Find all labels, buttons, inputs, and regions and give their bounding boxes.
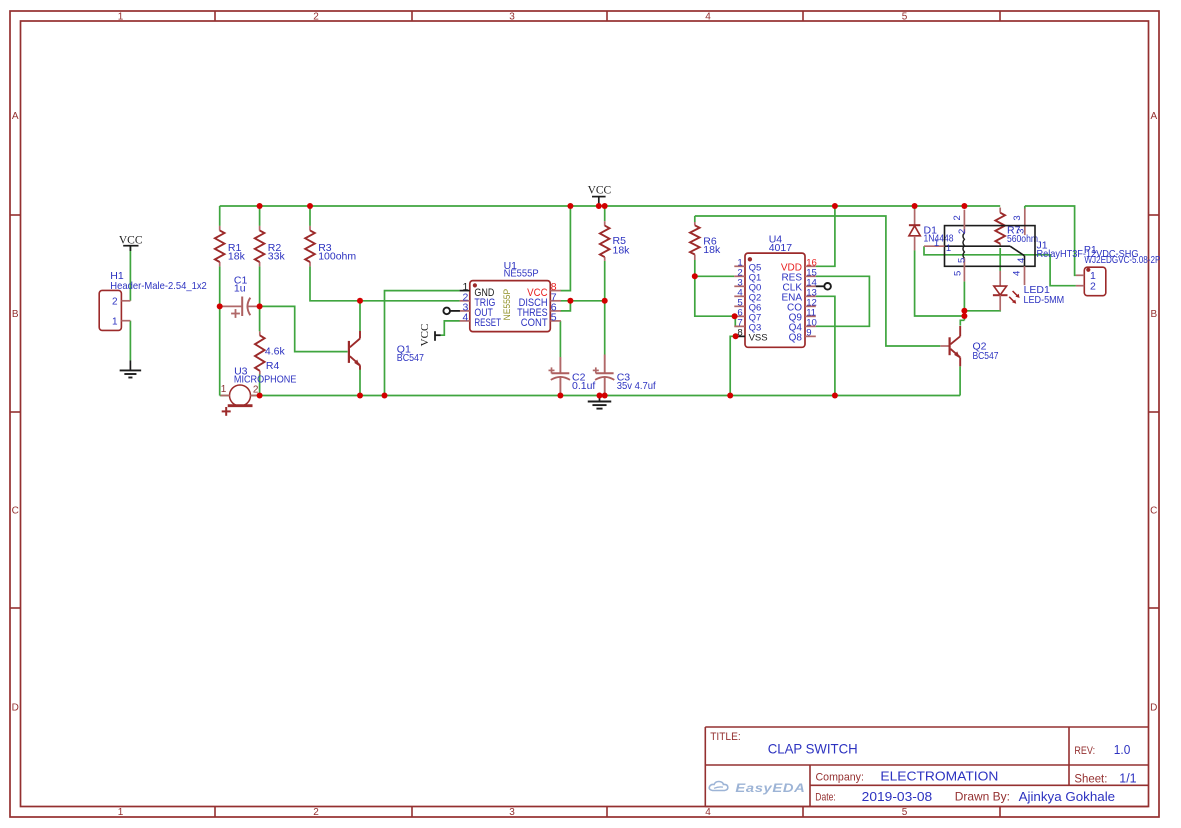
svg-text:Q8: Q8 bbox=[789, 333, 803, 344]
svg-text:5: 5 bbox=[956, 258, 967, 263]
svg-text:4: 4 bbox=[1011, 271, 1022, 276]
svg-text:3: 3 bbox=[509, 12, 515, 23]
svg-text:B: B bbox=[1150, 309, 1157, 320]
svg-text:C: C bbox=[12, 506, 19, 517]
svg-text:RESET: RESET bbox=[474, 317, 501, 329]
svg-text:18k: 18k bbox=[613, 245, 631, 257]
svg-text:Company:: Company: bbox=[816, 771, 864, 783]
svg-text:BC547: BC547 bbox=[397, 353, 424, 364]
svg-text:EasyEDA: EasyEDA bbox=[735, 783, 805, 795]
svg-text:A: A bbox=[1150, 111, 1157, 122]
svg-text:VCC: VCC bbox=[588, 185, 612, 197]
svg-text:Date:: Date: bbox=[815, 792, 836, 804]
svg-text:ELECTROMATION: ELECTROMATION bbox=[880, 769, 998, 784]
svg-text:4017: 4017 bbox=[769, 242, 793, 254]
svg-text:CLAP SWITCH: CLAP SWITCH bbox=[768, 740, 858, 756]
svg-text:A: A bbox=[12, 111, 19, 122]
svg-text:5: 5 bbox=[551, 312, 557, 324]
svg-text:1.0: 1.0 bbox=[1114, 743, 1131, 757]
svg-text:NE555P: NE555P bbox=[504, 268, 539, 280]
svg-text:BC547: BC547 bbox=[973, 351, 999, 362]
svg-text:WJ2EDGVC-5.08-2P: WJ2EDGVC-5.08-2P bbox=[1084, 255, 1160, 266]
svg-text:3: 3 bbox=[1016, 229, 1027, 234]
svg-text:33k: 33k bbox=[268, 251, 286, 263]
svg-text:3: 3 bbox=[509, 807, 515, 818]
svg-text:2: 2 bbox=[313, 12, 319, 23]
svg-text:B: B bbox=[12, 309, 19, 320]
svg-text:2: 2 bbox=[112, 296, 118, 307]
svg-text:1: 1 bbox=[118, 807, 124, 818]
svg-text:0.1uf: 0.1uf bbox=[572, 380, 595, 392]
svg-text:18k: 18k bbox=[228, 251, 246, 263]
svg-text:1/1: 1/1 bbox=[1119, 771, 1136, 786]
svg-text:Drawn By:: Drawn By: bbox=[955, 790, 1010, 804]
svg-text:1u: 1u bbox=[234, 283, 246, 295]
svg-text:1: 1 bbox=[112, 316, 118, 327]
svg-text:35v 4.7uf: 35v 4.7uf bbox=[617, 381, 656, 392]
svg-text:TITLE:: TITLE: bbox=[710, 731, 741, 743]
svg-text:3: 3 bbox=[1012, 215, 1023, 220]
svg-text:2: 2 bbox=[957, 229, 968, 234]
svg-text:NE555P: NE555P bbox=[502, 289, 513, 321]
svg-text:4: 4 bbox=[705, 807, 711, 818]
svg-text:4: 4 bbox=[1016, 258, 1027, 263]
svg-text:9: 9 bbox=[806, 328, 811, 339]
svg-text:Ajinkya Gokhale: Ajinkya Gokhale bbox=[1019, 790, 1116, 804]
svg-text:Sheet:: Sheet: bbox=[1074, 774, 1107, 786]
svg-text:5: 5 bbox=[902, 807, 908, 818]
svg-text:Header-Male-2.54_1x2: Header-Male-2.54_1x2 bbox=[110, 281, 207, 292]
svg-text:R4: R4 bbox=[266, 360, 280, 372]
svg-text:LED-5MM: LED-5MM bbox=[1024, 295, 1065, 306]
svg-text:REV:: REV: bbox=[1074, 745, 1095, 757]
svg-text:5: 5 bbox=[902, 12, 908, 23]
svg-text:C: C bbox=[1150, 506, 1157, 517]
svg-text:100ohm: 100ohm bbox=[318, 251, 356, 263]
svg-text:P1: P1 bbox=[1084, 244, 1097, 256]
svg-text:2: 2 bbox=[313, 807, 319, 818]
svg-text:18k: 18k bbox=[703, 244, 721, 256]
svg-text:D: D bbox=[1150, 703, 1157, 714]
svg-text:2019-03-08: 2019-03-08 bbox=[862, 790, 933, 804]
svg-text:2: 2 bbox=[952, 215, 963, 220]
svg-text:VCC: VCC bbox=[119, 235, 143, 247]
svg-text:2: 2 bbox=[1090, 280, 1096, 292]
svg-text:D: D bbox=[12, 703, 19, 714]
svg-text:1: 1 bbox=[118, 12, 124, 23]
svg-text:5: 5 bbox=[952, 271, 963, 276]
svg-text:MICROPHONE: MICROPHONE bbox=[234, 375, 297, 386]
svg-text:4: 4 bbox=[462, 312, 468, 324]
svg-text:1: 1 bbox=[946, 243, 951, 254]
svg-text:VCC: VCC bbox=[419, 324, 431, 347]
svg-text:4.6k: 4.6k bbox=[265, 345, 286, 357]
svg-text:1: 1 bbox=[221, 384, 227, 395]
svg-text:1: 1 bbox=[934, 238, 939, 249]
svg-text:VSS: VSS bbox=[749, 333, 768, 344]
svg-text:4: 4 bbox=[705, 12, 711, 23]
svg-text:560ohm: 560ohm bbox=[1007, 234, 1038, 245]
svg-text:CONT: CONT bbox=[521, 317, 548, 329]
